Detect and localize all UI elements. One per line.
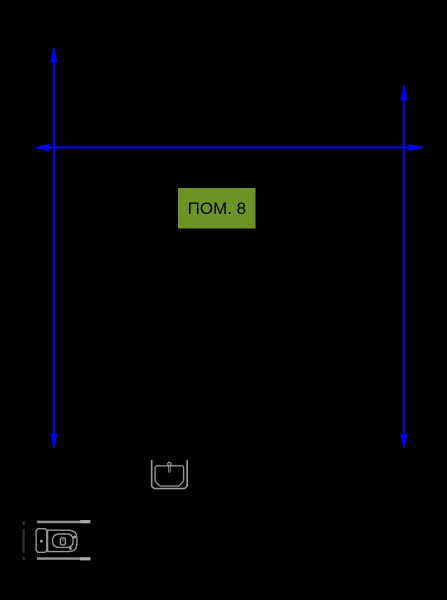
- toilet seat: [53, 534, 74, 547]
- toilet bolt top: [74, 536, 76, 538]
- wire dimension line horizontal: [36, 144, 423, 151]
- toilet bottom wall bar bright end: [80, 557, 90, 560]
- toilet top wall bar: [37, 521, 90, 524]
- toilet bottom wall bar: [37, 557, 90, 560]
- sink faucet circle: [168, 462, 171, 465]
- sink counter U: [152, 460, 188, 489]
- node room label ПОМ. 8: [178, 188, 256, 228]
- sink fixture: [152, 460, 188, 489]
- sink faucet stem: [169, 466, 171, 472]
- wire dimension line vertical left: [51, 48, 58, 448]
- toilet tank: [36, 529, 47, 553]
- toilet drain nub: [62, 540, 64, 541]
- toilet wall stub dark middle: [23, 529, 25, 553]
- toilet drain: [60, 538, 65, 545]
- wire dimension line vertical right: [401, 86, 408, 448]
- toilet tank dot: [40, 540, 43, 543]
- toilet fixture: [23, 520, 91, 560]
- toilet wall stub dark top: [23, 521, 25, 525]
- svg-text:ПОМ. 8: ПОМ. 8: [188, 199, 247, 218]
- toilet bolt bottom: [70, 548, 72, 550]
- sink basin: [155, 466, 184, 486]
- toilet wall stub dark bottom: [23, 557, 25, 560]
- toilet bowl outline: [48, 530, 77, 551]
- toilet top wall bar bright end: [80, 520, 90, 523]
